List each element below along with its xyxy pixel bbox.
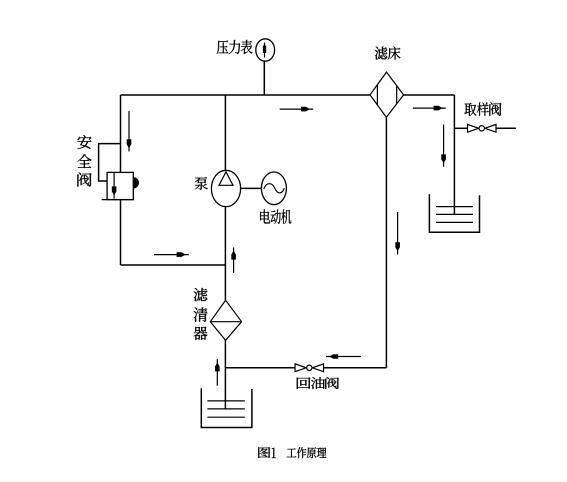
wire: central pipe below filter into tank	[224, 340, 226, 409]
label 回油阀 (oil return valve)	[297, 377, 339, 389]
pressure gauge	[256, 39, 275, 61]
wire: sampling branch left part	[454, 127, 467, 129]
flow arrow down (right drop)	[441, 125, 446, 167]
wire: left drop lower segment	[120, 200, 122, 265]
label 安全阀 (safety valve, vertical)	[77, 135, 91, 186]
label 滤床 (filter bed)	[375, 47, 401, 60]
flow arrow left (oil return)	[326, 354, 361, 359]
motor (circle with sine wave)	[261, 172, 286, 205]
sampling valve	[468, 124, 497, 132]
wire: pump to motor link	[241, 187, 262, 189]
label 滤清器 (filter, vertical)	[194, 288, 208, 340]
flow arrow right (top pipe)	[280, 107, 314, 112]
label 电动机 (motor)	[260, 209, 291, 224]
safety valve actuator (solid half-disc)	[133, 177, 139, 188]
wire: safety valve bypass (left loop)	[99, 144, 121, 181]
wire: filter bed to right corner	[404, 94, 455, 96]
flow arrow down (left drop)	[127, 111, 132, 152]
flow arrow right (bottom-left)	[154, 252, 189, 257]
wire: central pipe pump to filter	[224, 207, 226, 300]
filter 滤清器 (diamond with center line)	[210, 300, 241, 340]
filter bed (diamond with chords)	[370, 72, 404, 117]
flow arrow down (inside safety valve)	[112, 172, 117, 198]
label 泵 (pump)	[195, 177, 208, 190]
left tank	[201, 388, 252, 427]
label 压力表 (pressure gauge)	[217, 40, 253, 54]
wire: central pipe above pump	[224, 95, 226, 171]
wire: bottom-left horizontal	[121, 264, 226, 266]
flow arrow right (to right corner)	[413, 106, 446, 111]
wire: left drop upper segment	[120, 95, 122, 172]
right tank	[429, 194, 479, 232]
oil return valve	[295, 364, 324, 372]
flow arrow up (into pump line)	[231, 247, 236, 273]
flow arrow down (filter bed drain)	[395, 212, 400, 254]
caption 图1 工作原理	[258, 447, 326, 458]
pump (circle with triangle)	[211, 170, 240, 206]
wire: top main pipe	[121, 94, 371, 96]
wire: pressure gauge stem	[263, 62, 265, 96]
safety valve body	[102, 172, 134, 199]
wire: right drop into tank	[453, 95, 455, 214]
wire: filter bed drain	[385, 117, 387, 367]
wire: oil return line left part	[225, 367, 295, 369]
wire: oil return line right part	[324, 367, 387, 369]
label 取样阀 (sampling valve)	[464, 102, 501, 116]
flow arrow up (from left tank)	[215, 359, 220, 386]
wire: sampling branch right part	[496, 127, 516, 129]
